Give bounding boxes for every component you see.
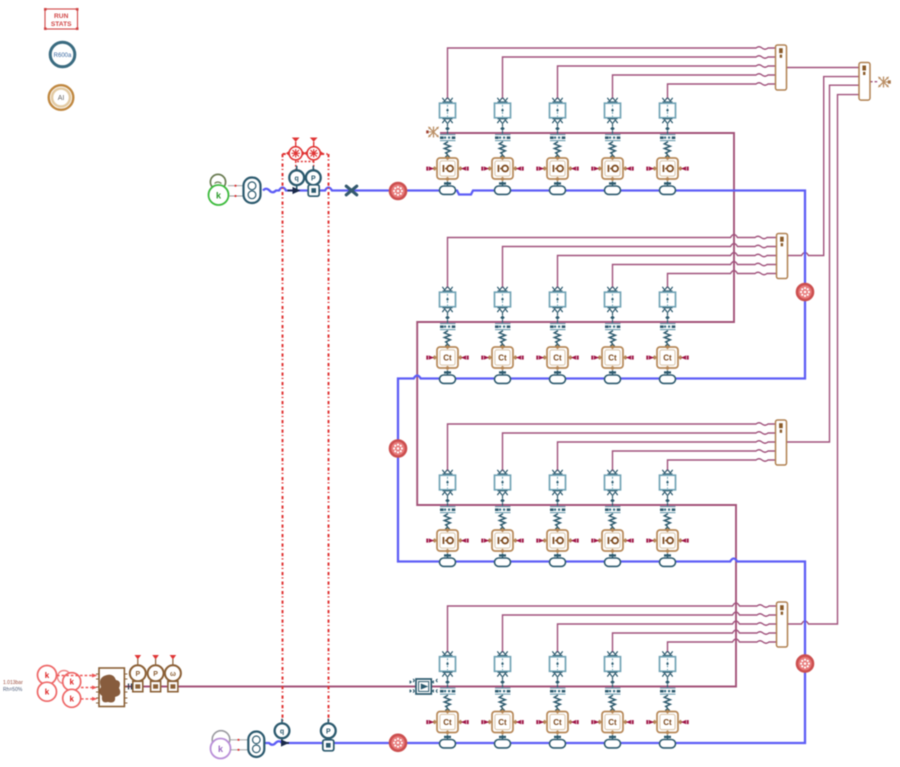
air fan-drive stadium (bottom) [248, 732, 264, 758]
svg-text:P: P [326, 728, 331, 735]
wire: mux M1 output to collector [787, 67, 860, 69]
cell B1C4 [591, 98, 633, 195]
cell B4C5 [646, 651, 688, 748]
cell B1C3 [536, 98, 578, 195]
flow arrow (bottom duct) [281, 739, 289, 746]
line ticks after blower [129, 684, 132, 690]
cell B2C5 [646, 287, 688, 384]
cell B2C1 [426, 287, 468, 384]
wire: mux M2 output riser [788, 77, 860, 256]
cell B2C4 [591, 287, 633, 384]
wire: bank4 cell-top tie lines to mux M4 (bump over riser) [448, 603, 777, 653]
wire: bank1 cell-top tie lines to mux M1 [448, 47, 776, 99]
gauge P (bottom) [321, 719, 336, 751]
mux M2 [777, 234, 788, 279]
svg-text:Rh=50%: Rh=50% [3, 687, 23, 693]
cell B1C1 [426, 98, 468, 195]
wire: air-loop serpentine bus (blue) [263, 188, 805, 745]
sensor valve VA [286, 138, 306, 163]
wire: sensor signal dotted drop A [283, 154, 289, 723]
cell B3C1 [426, 470, 468, 567]
cell B4C4 [591, 651, 633, 748]
gauge q (bottom) [275, 719, 290, 744]
wire: collector output stub [870, 81, 878, 83]
svg-text:AI: AI [58, 95, 65, 102]
wire: sensor signal dotted drop B [321, 154, 329, 723]
air fan-drive stadium (top) [244, 178, 261, 204]
cell B4C3 [536, 651, 578, 748]
fan F3 [390, 441, 406, 457]
cell B4C1 [426, 651, 468, 748]
collector mux M5 [859, 63, 870, 101]
fan F5 [390, 735, 406, 751]
svg-text:ω: ω [170, 671, 176, 678]
svg-text:1.013bar: 1.013bar [3, 680, 23, 686]
cell B4C2 [481, 651, 523, 748]
fan F2 [797, 284, 813, 300]
svg-text:k: k [45, 688, 50, 697]
air source (purple, bottom) [211, 731, 249, 759]
legend: RUN STATS [44, 8, 79, 30]
dashed control lines into blower [57, 676, 92, 699]
liquid pump on bank4 feed [410, 679, 438, 694]
wire: bank3 cell-top tie lines to mux M3 [448, 423, 776, 471]
svg-text:P: P [311, 175, 316, 182]
cell B2C2 [481, 287, 523, 384]
wire: bank2 cell-top tie lines to mux M2 [448, 235, 777, 289]
svg-text:k: k [69, 678, 74, 687]
closed crossing X on top duct [346, 186, 356, 195]
legend: AI badge [49, 85, 74, 110]
wire: sensor stubs to top gauges [296, 161, 314, 170]
ambient boundary at collector output [878, 77, 891, 88]
moist-air source block (red, bottom-left) [3, 666, 81, 708]
cell B3C3 [536, 470, 578, 567]
svg-text:q: q [280, 728, 284, 735]
svg-text:RUN: RUN [54, 13, 69, 20]
cell B3C2 [481, 470, 523, 567]
mux M3 [776, 420, 787, 465]
mux M1 [776, 45, 787, 90]
svg-text:STATS: STATS [51, 21, 72, 28]
gauge q (top) [289, 166, 304, 191]
ambient boundary at bank1 inlet [426, 127, 439, 138]
svg-text:k: k [45, 671, 50, 680]
brown gauges on supply line [130, 655, 181, 692]
cell B1C5 [646, 98, 688, 195]
fan F1 [390, 183, 406, 199]
cell B3C5 [646, 470, 688, 567]
svg-text:q: q [295, 175, 299, 182]
wire: mux M3 output riser [787, 85, 860, 442]
svg-text:R600a: R600a [54, 53, 72, 59]
wire: refrigerant serpentine bus (maroon) [124, 133, 736, 687]
cell B1C2 [481, 98, 523, 195]
svg-text:P: P [153, 671, 158, 678]
legend: refrigerant badge [50, 42, 75, 67]
air source (green) [209, 174, 244, 205]
fan F4 [797, 656, 813, 672]
svg-text:P: P [135, 671, 140, 678]
gauge P (top) [306, 166, 321, 197]
blower box [96, 668, 127, 707]
wire: mux M4 output riser [788, 95, 860, 624]
svg-text:k: k [69, 694, 74, 703]
cell B3C4 [591, 470, 633, 567]
sensor valve VB [304, 138, 324, 163]
mux M4 [777, 602, 788, 647]
cell B2C3 [536, 287, 578, 384]
flow arrow (top duct) [288, 187, 301, 194]
